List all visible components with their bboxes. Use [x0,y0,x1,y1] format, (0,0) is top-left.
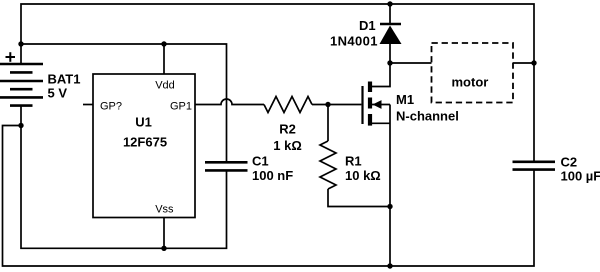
wire Vdd rail [21,44,227,162]
diode D1 [380,24,402,44]
wire D1 cathode [389,4,391,24]
wire M1 body [370,104,390,106]
wire M1 source [370,122,390,124]
svg-text:R2: R2 [279,122,296,137]
wire inner ground rail [21,126,227,249]
wire GP? stub [83,104,93,106]
svg-text:Vdd: Vdd [155,80,175,92]
svg-text:GP1: GP1 [170,101,192,113]
node battery minus junction [18,123,23,128]
node Vss junction [161,246,166,251]
svg-text:Vss: Vss [155,203,174,215]
transistor M1 channel segments [368,82,372,126]
svg-text:1N4001: 1N4001 [330,34,378,49]
node battery plus junction [18,41,23,46]
wire battery negative to ground rails [20,106,22,126]
wire Vss pin [163,218,165,249]
battery BAT1 [0,64,43,106]
capacitor C2 [513,162,556,170]
wire M1 drain [370,63,390,87]
resistor R1 [320,141,336,189]
svg-text:100 µF: 100 µF [561,169,600,184]
node R1 source junction [387,204,392,209]
node Vdd junction [161,41,166,46]
svg-text:U1: U1 [135,114,152,129]
svg-text:5 V: 5 V [48,86,68,101]
node drain junction [387,60,392,65]
svg-text:R1: R1 [345,154,362,169]
wire motor right [513,62,534,64]
wire D1 anode [389,44,391,63]
svg-text:GP?: GP? [100,101,122,113]
capacitor C1 [205,162,248,170]
node D1 top junction [387,1,392,6]
svg-text:BAT1: BAT1 [48,72,81,87]
IC U1 box [93,74,195,218]
svg-text:D1: D1 [359,18,376,33]
svg-text:C2: C2 [561,154,578,169]
resistor R2 [264,97,312,113]
wire R2 to gate [312,104,361,106]
svg-text:M1: M1 [396,92,414,107]
svg-text:10 kΩ: 10 kΩ [345,168,381,183]
wire Vdd pin [163,44,165,74]
svg-text:1 kΩ: 1 kΩ [273,138,302,153]
node gate junction [325,102,330,107]
svg-text:C1: C1 [252,154,269,169]
wire motor left [390,62,432,64]
wire R1 bottom [328,189,390,207]
wire top rail +5V [21,4,534,162]
svg-text:100 nF: 100 nF [252,168,293,183]
svg-text:motor: motor [452,74,489,89]
transistor M1 gate bar [361,86,363,124]
wire M1 source down [389,105,391,267]
node source ground junction [387,263,392,268]
battery plus sign [6,52,16,62]
wire R1 top [327,105,329,142]
motor dashed box [432,43,514,103]
node motor right junction [531,60,536,65]
svg-text:12F675: 12F675 [123,134,167,149]
wire GP1 to R2 with hop [195,99,264,105]
wire outer ground rail [3,126,535,267]
svg-text:N-channel: N-channel [396,108,459,123]
transistor M1 arrow [373,100,382,109]
